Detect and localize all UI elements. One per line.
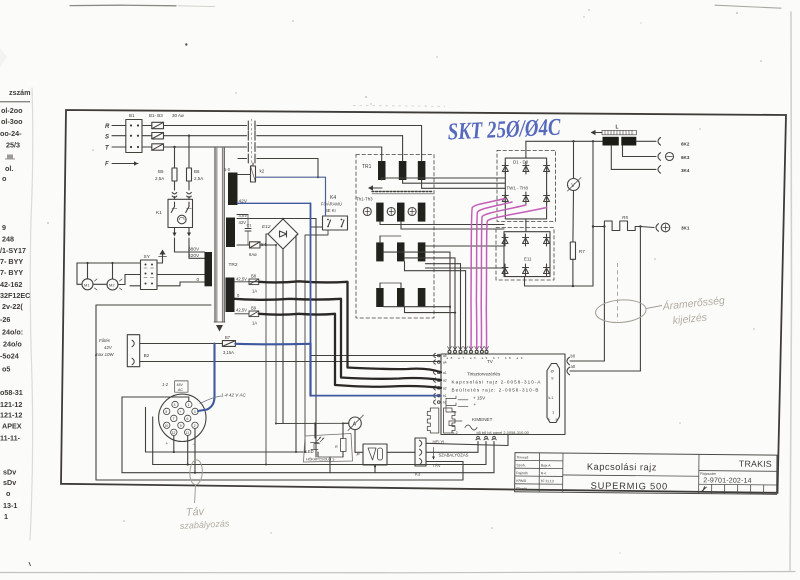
svg-text:a: a [556, 418, 558, 422]
svg-text:K4: K4 [330, 195, 336, 201]
svg-text:Kapcsolási rajz 2-0058-310-A: Kapcsolási rajz 2-0058-310-A [452, 380, 542, 385]
svg-text:.III.: .III. [5, 153, 15, 162]
svg-text:7- BYY: 7- BYY [0, 268, 23, 277]
svg-text:Fűtés: Fűtés [99, 338, 111, 343]
svg-text:R: R [335, 445, 338, 449]
svg-text:E12: E12 [262, 224, 271, 230]
svg-text:1: 1 [4, 512, 8, 521]
svg-text:AC: AC [178, 388, 183, 392]
svg-text:o58-31: o58-31 [0, 388, 23, 397]
svg-text:oo-24-: oo-24- [0, 129, 22, 138]
svg-text:42,5V: 42,5V [236, 277, 247, 282]
svg-text:o5: o5 [2, 365, 10, 374]
svg-text:Szerk.: Szerk. [516, 463, 526, 467]
svg-text:1-2: 1-2 [162, 382, 169, 387]
svg-text:42V: 42V [239, 220, 247, 225]
svg-text:K1: K1 [156, 210, 162, 216]
svg-text:BE KI: BE KI [325, 208, 336, 213]
svg-text:a4: a4 [443, 361, 447, 365]
svg-text:KIMENET: KIMENET [472, 417, 493, 422]
svg-text:TR2: TR2 [229, 262, 238, 268]
svg-text:13-1: 13-1 [3, 501, 17, 510]
svg-text:k-2: k-2 [453, 431, 458, 435]
svg-text:SUPERMIG 500: SUPERMIG 500 [591, 481, 668, 492]
svg-text:Tirisztorvezérlés: Tirisztorvezérlés [467, 372, 501, 377]
svg-text:48V: 48V [177, 383, 184, 387]
svg-text:a1: a1 [443, 371, 447, 375]
svg-text:3K4: 3K4 [681, 168, 690, 173]
svg-text:248: 248 [2, 235, 14, 244]
svg-text:b5 b6 b4 panel 2-0058-310-00: b5 b6 b4 panel 2-0058-310-00 [477, 430, 530, 435]
svg-text:B9: B9 [251, 306, 257, 311]
svg-text:SZABÁLYOZÁS: SZABÁLYOZÁS [439, 453, 469, 458]
svg-text:LED: LED [306, 449, 314, 454]
svg-text:1A: 1A [252, 321, 257, 326]
svg-text:Rajzoló: Rajzoló [516, 471, 527, 475]
svg-text:2-9701-202-14: 2-9701-202-14 [703, 477, 752, 484]
svg-text:max 10W: max 10W [95, 352, 114, 357]
svg-text:+ 15V: + 15V [473, 396, 486, 401]
svg-text:9: 9 [180, 424, 182, 428]
svg-text:Táv: Táv [185, 506, 206, 519]
svg-text:121-12: 121-12 [0, 411, 22, 420]
svg-text:Th1-Th3: Th1-Th3 [356, 197, 373, 202]
svg-text:1A: 1A [252, 289, 257, 294]
svg-text:+: + [166, 441, 169, 446]
svg-text:30 Aø: 30 Aø [172, 113, 184, 118]
svg-text:M2: M2 [109, 283, 115, 288]
svg-text:b1: b1 [443, 394, 447, 398]
svg-text:B7: B7 [225, 335, 231, 340]
svg-text:k-1: k-1 [549, 396, 554, 400]
svg-text:2v-22(: 2v-22( [2, 302, 23, 311]
svg-text:o: o [2, 174, 7, 183]
svg-text:zszám: zszám [9, 88, 31, 97]
svg-text:4: 4 [174, 403, 176, 407]
svg-text:4,8V: 4,8V [239, 213, 248, 218]
svg-text:87.11.13: 87.11.13 [541, 479, 554, 483]
svg-text:3,15A: 3,15A [223, 350, 234, 355]
svg-text:M1: M1 [84, 282, 90, 287]
svg-text:L: L [616, 125, 619, 131]
svg-text:ol-2oo: ol-2oo [1, 106, 23, 115]
svg-text:k2: k2 [260, 169, 265, 174]
svg-text:12: 12 [172, 431, 176, 435]
svg-text:a3: a3 [443, 379, 447, 383]
svg-text:3: 3 [194, 410, 196, 414]
svg-text:B6: B6 [194, 169, 200, 174]
svg-text:24o/o:: 24o/o: [2, 328, 23, 337]
svg-text:/1-SY17: /1-SY17 [0, 246, 26, 255]
svg-text:b: b [548, 418, 550, 422]
svg-text:HELYI: HELYI [433, 440, 445, 445]
svg-text:6Aø: 6Aø [249, 252, 257, 257]
svg-text:TR1: TR1 [362, 164, 372, 170]
svg-text:E11: E11 [524, 257, 532, 262]
svg-text:+: + [179, 410, 181, 414]
svg-text:B8: B8 [251, 274, 257, 279]
svg-text:T: T [173, 417, 175, 421]
svg-text:1-4 42 V AC: 1-4 42 V AC [221, 393, 247, 398]
svg-text:S: S [105, 135, 109, 141]
svg-text:SY: SY [144, 254, 151, 260]
svg-text:F: F [105, 162, 109, 168]
svg-text:+: + [474, 402, 477, 407]
svg-text:b0: b0 [571, 354, 576, 359]
svg-text:25/3: 25/3 [6, 141, 20, 150]
svg-text:Rajzszám: Rajzszám [700, 472, 716, 476]
svg-text:a5: a5 [443, 354, 447, 358]
svg-text:P: P [357, 452, 360, 457]
svg-text:6: 6 [187, 417, 189, 421]
svg-text:42-162: 42-162 [0, 280, 22, 289]
svg-text:Ellenőr: Ellenőr [516, 487, 527, 491]
svg-text:B1: B1 [129, 113, 135, 118]
svg-text:APEX: APEX [2, 422, 22, 431]
svg-text:o: o [6, 489, 11, 498]
svg-text:TW1 - TH8: TW1 - TH8 [507, 186, 529, 191]
svg-text:11: 11 [186, 431, 190, 435]
svg-text:B2: B2 [144, 353, 150, 358]
svg-text:-26: -26 [0, 315, 10, 324]
svg-text:ol.: ol. [5, 164, 13, 173]
svg-text:6K3: 6K3 [681, 155, 690, 160]
svg-text:2: 2 [194, 424, 196, 428]
svg-text:2,5A: 2,5A [194, 176, 203, 181]
svg-text:3K1: 3K1 [681, 226, 690, 231]
svg-text:R7: R7 [579, 249, 585, 254]
svg-text:9: 9 [2, 223, 6, 232]
svg-text:11-11-: 11-11- [0, 434, 21, 443]
svg-text:ol-3oo: ol-3oo [1, 117, 23, 126]
svg-text:SKT 25Ø/Ø4C: SKT 25Ø/Ø4C [447, 115, 562, 146]
svg-text:Beültetés rajz: 2-0058-310-B: Beültetés rajz: 2-0058-310-B [452, 388, 539, 393]
svg-text:KRMÜ: KRMÜ [516, 479, 527, 483]
svg-text:6K2: 6K2 [681, 142, 690, 147]
svg-text:a2: a2 [443, 386, 447, 390]
svg-text:42V: 42V [104, 345, 113, 350]
svg-text:1-0: 1-0 [224, 167, 231, 172]
svg-text:sDv: sDv [3, 478, 16, 487]
svg-text:Tervező: Tervező [516, 456, 528, 460]
svg-text:sDv: sDv [3, 468, 16, 477]
svg-text:B1- B3: B1- B3 [149, 113, 163, 118]
svg-text:-5o24: -5o24 [0, 352, 19, 361]
svg-text:5: 5 [165, 410, 167, 414]
svg-text:2,5A: 2,5A [155, 176, 164, 181]
svg-text:K3: K3 [415, 472, 421, 477]
svg-text:R: R [105, 124, 110, 130]
svg-text:a8 a7 a6 a9 b7 b8 a9: a8 a7 a6 a9 b7 b8 a9 [447, 356, 525, 360]
svg-text:R-é: R-é [541, 471, 547, 475]
svg-text:32F12EC: 32F12EC [0, 291, 30, 300]
svg-text:B5: B5 [158, 169, 164, 174]
svg-text:121-12: 121-12 [0, 400, 22, 409]
svg-text:7- BYY: 7- BYY [0, 257, 23, 266]
svg-text:1: 1 [188, 403, 190, 407]
svg-text:C1: C1 [247, 223, 253, 228]
svg-text:24o/o: 24o/o [3, 340, 22, 349]
svg-text:TRAKIS: TRAKIS [739, 459, 772, 469]
svg-text:FŐÁRAMÚ: FŐÁRAMÚ [321, 202, 342, 207]
svg-text:TÁV: TÁV [433, 463, 441, 468]
svg-text:R5: R5 [622, 215, 628, 220]
svg-text:10: 10 [165, 424, 169, 428]
svg-text:380V: 380V [188, 247, 200, 253]
svg-text:Bújs A: Bújs A [541, 464, 551, 468]
svg-text:42,5V: 42,5V [236, 308, 247, 313]
svg-text:a0: a0 [571, 364, 576, 369]
svg-text:Ø: Ø [551, 369, 554, 374]
svg-text:Kapcsolási rajz: Kapcsolási rajz [587, 462, 657, 473]
svg-text:220V: 220V [188, 253, 200, 259]
